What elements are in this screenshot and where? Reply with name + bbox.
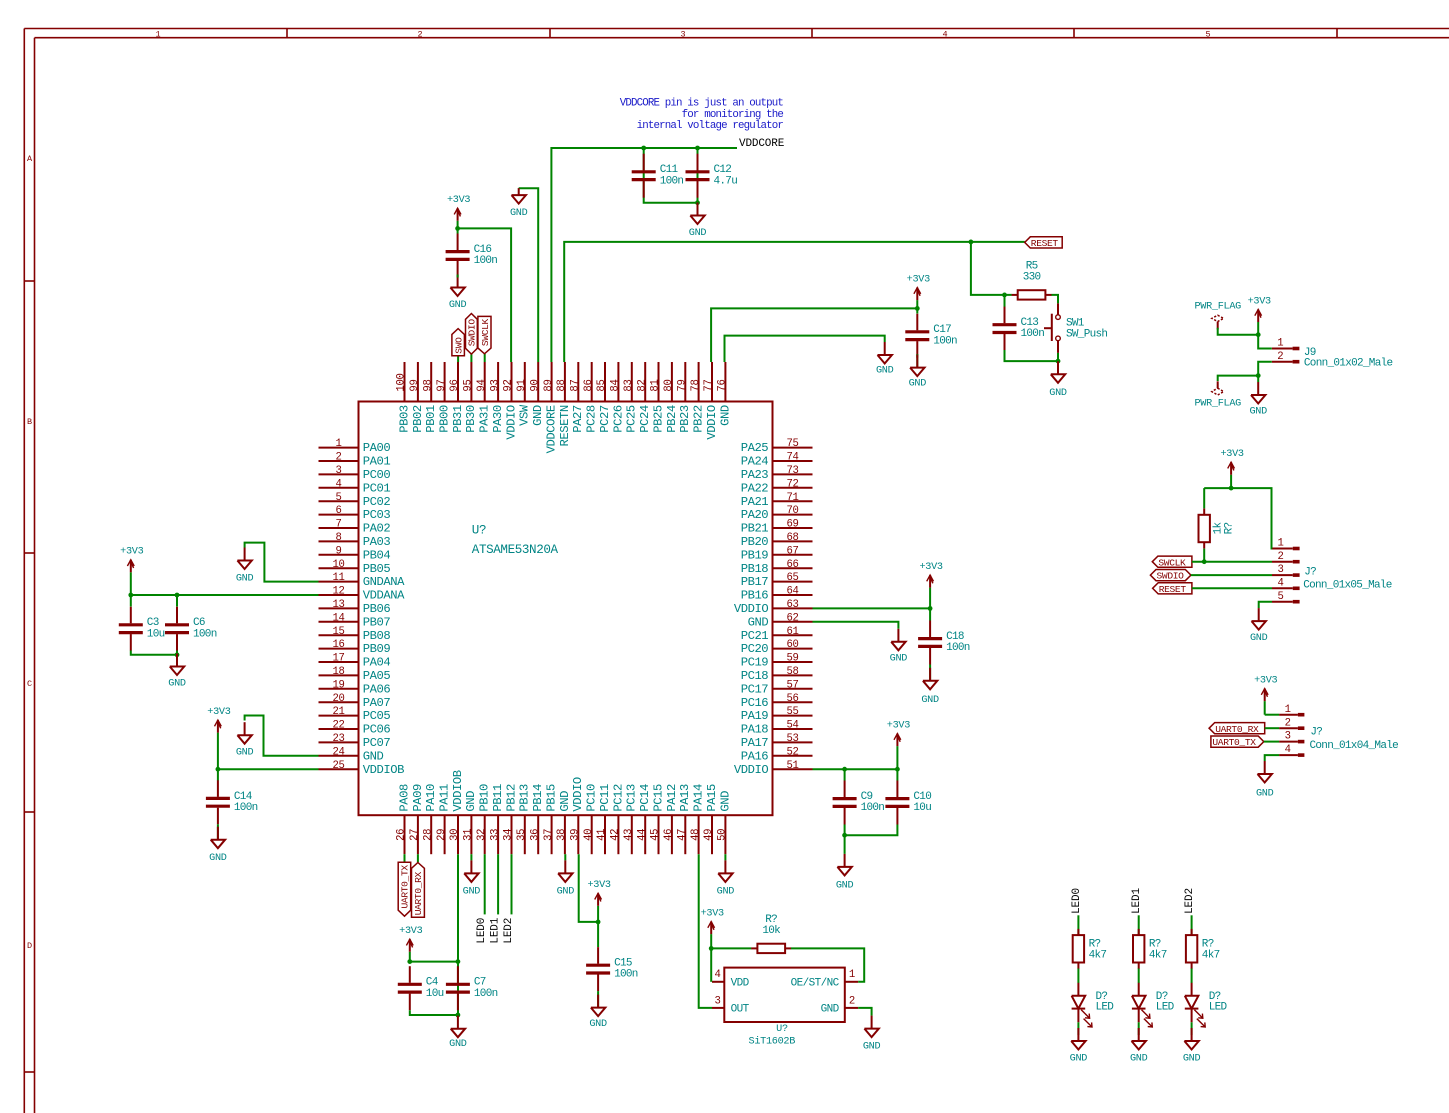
wire pin 39 +3V3 — [579, 854, 598, 922]
svg-text:14: 14 — [332, 612, 344, 624]
svg-text:UART0_RX: UART0_RX — [1215, 724, 1259, 735]
wire — [470, 354, 472, 362]
svg-text:67: 67 — [786, 545, 798, 557]
svg-text:PA11: PA11 — [438, 784, 452, 812]
svg-text:VDDCORE: VDDCORE — [739, 138, 785, 150]
wire to pwr_flag — [1218, 376, 1259, 381]
svg-text:PB25: PB25 — [651, 405, 665, 433]
svg-text:39: 39 — [570, 829, 582, 841]
svg-text:VDDIO: VDDIO — [571, 777, 585, 811]
svg-text:PC26: PC26 — [611, 405, 625, 433]
svg-text:47: 47 — [677, 829, 689, 841]
junction — [928, 606, 933, 611]
IC U1 left pins 1-25 — [319, 438, 406, 777]
svg-text:GND: GND — [1256, 789, 1274, 800]
ground — [463, 860, 481, 897]
svg-text:28: 28 — [422, 829, 434, 841]
svg-text:GND: GND — [168, 679, 186, 690]
svg-text:GND: GND — [836, 880, 854, 891]
svg-text:30: 30 — [449, 829, 461, 841]
wire — [844, 835, 846, 854]
node LED0 label — [1071, 888, 1083, 914]
junction — [842, 833, 847, 838]
svg-text:PC27: PC27 — [598, 405, 612, 433]
svg-text:C: C — [27, 679, 32, 689]
ground — [557, 860, 575, 897]
svg-text:PA21: PA21 — [741, 495, 769, 509]
svg-text:GND: GND — [558, 791, 572, 812]
svg-text:GND: GND — [748, 615, 769, 629]
wire RESET — [1192, 587, 1272, 589]
power +3V3 — [907, 274, 930, 308]
svg-text:PB31: PB31 — [451, 405, 465, 433]
svg-text:+3V3: +3V3 — [1248, 296, 1271, 307]
global label RESET — [1025, 237, 1063, 249]
svg-text:100n: 100n — [933, 335, 957, 347]
capacitor C3 — [119, 607, 165, 651]
wire — [1191, 1022, 1193, 1035]
wire UART0_RX — [1265, 727, 1279, 729]
wire — [410, 961, 458, 963]
svg-text:PA19: PA19 — [741, 709, 769, 723]
wire — [597, 991, 599, 1008]
svg-text:44: 44 — [636, 829, 648, 841]
wire — [404, 854, 406, 862]
svg-text:37: 37 — [543, 829, 555, 841]
svg-text:RESET: RESET — [1159, 584, 1187, 595]
svg-text:24: 24 — [332, 746, 344, 758]
svg-text:PB23: PB23 — [678, 405, 692, 433]
svg-text:PA22: PA22 — [741, 481, 769, 495]
svg-text:SWO: SWO — [453, 337, 464, 354]
junction — [455, 226, 460, 231]
wire — [1077, 1022, 1079, 1035]
svg-text:3: 3 — [714, 996, 720, 1008]
svg-text:VDDIO: VDDIO — [734, 602, 768, 616]
svg-text:PA01: PA01 — [363, 455, 391, 469]
node LED2 label — [503, 918, 515, 944]
svg-text:PC28: PC28 — [585, 405, 599, 433]
svg-text:+3V3: +3V3 — [587, 880, 610, 891]
wire — [896, 769, 898, 780]
capacitor C12 — [686, 154, 738, 198]
svg-text:17: 17 — [332, 653, 344, 665]
svg-text:56: 56 — [786, 693, 798, 705]
junction — [1229, 486, 1234, 491]
svg-text:3: 3 — [1277, 564, 1283, 576]
svg-text:A: A — [27, 154, 33, 164]
svg-text:87: 87 — [570, 379, 582, 391]
svg-text:PC21: PC21 — [741, 629, 769, 643]
svg-text:97: 97 — [436, 379, 448, 391]
svg-text:45: 45 — [650, 829, 662, 841]
wire — [597, 922, 599, 947]
svg-text:2: 2 — [335, 452, 341, 464]
IC U2 SiT1602B body — [724, 968, 845, 1048]
wire — [470, 854, 472, 860]
resistor R? — [1133, 929, 1167, 969]
junction — [456, 1013, 461, 1018]
svg-text:20: 20 — [332, 693, 344, 705]
svg-text:100n: 100n — [474, 255, 498, 267]
svg-text:GND: GND — [510, 208, 528, 219]
svg-text:PA06: PA06 — [363, 682, 391, 696]
wire — [484, 354, 486, 362]
svg-text:5: 5 — [1277, 591, 1283, 603]
wire — [417, 854, 419, 862]
wire pin 90 to gnd — [519, 188, 539, 362]
svg-text:63: 63 — [786, 599, 798, 611]
svg-text:4: 4 — [1285, 744, 1291, 756]
junction — [216, 767, 221, 772]
wire — [1138, 1022, 1140, 1035]
svg-text:PB16: PB16 — [741, 589, 769, 603]
svg-text:49: 49 — [703, 829, 715, 841]
capacitor C6 — [165, 607, 217, 651]
IC U1 top pins 76-100 — [396, 362, 733, 453]
global label SWCLK — [1152, 556, 1192, 568]
global label SWDIO — [1150, 570, 1191, 582]
connector J3 Conn_01x04_Male — [1279, 704, 1398, 756]
svg-text:PA20: PA20 — [741, 508, 769, 522]
svg-text:16: 16 — [332, 639, 344, 651]
wire pin 30 to C7 — [457, 854, 459, 1015]
svg-text:+3V3: +3V3 — [887, 720, 910, 731]
svg-text:PA16: PA16 — [741, 749, 769, 763]
note text about VDDCORE — [620, 97, 784, 132]
svg-text:1: 1 — [849, 969, 855, 981]
svg-text:PB24: PB24 — [665, 405, 679, 433]
svg-text:U?: U? — [776, 1024, 788, 1035]
svg-text:51: 51 — [786, 760, 798, 772]
svg-text:48: 48 — [690, 829, 702, 841]
svg-text:GND: GND — [1070, 1054, 1088, 1065]
wire C11 C12 to gnd — [644, 148, 698, 203]
svg-text:GND: GND — [363, 749, 384, 763]
svg-text:PC14: PC14 — [638, 784, 652, 812]
svg-text:330: 330 — [1023, 272, 1041, 284]
svg-text:RESETN: RESETN — [558, 405, 572, 446]
ground — [890, 629, 908, 665]
junction — [1202, 559, 1207, 564]
capacitor C17 — [905, 314, 957, 358]
svg-text:19: 19 — [332, 679, 344, 691]
svg-text:+3V3: +3V3 — [399, 926, 422, 937]
junction — [695, 146, 700, 151]
svg-text:85: 85 — [596, 379, 608, 391]
svg-text:73: 73 — [786, 465, 798, 477]
svg-text:100n: 100n — [234, 802, 258, 814]
svg-text:GND: GND — [209, 853, 227, 864]
svg-text:22: 22 — [332, 720, 344, 732]
power +3V3 — [399, 926, 422, 962]
ground — [863, 1016, 881, 1053]
svg-text:PB22: PB22 — [692, 405, 706, 433]
svg-text:VDDIO: VDDIO — [504, 405, 518, 439]
svg-text:10u: 10u — [913, 802, 931, 814]
junction — [842, 767, 847, 772]
svg-text:4k7: 4k7 — [1202, 950, 1220, 962]
svg-text:PC06: PC06 — [363, 723, 391, 737]
svg-text:PB30: PB30 — [464, 405, 478, 433]
wire pwr_flag +3V3 — [1218, 328, 1259, 335]
svg-text:GND: GND — [921, 695, 939, 706]
svg-text:PA05: PA05 — [363, 669, 391, 683]
ground — [717, 860, 735, 897]
svg-text:1: 1 — [1277, 538, 1283, 550]
junction — [1002, 293, 1007, 298]
wire LED1 — [1138, 915, 1140, 935]
svg-text:2: 2 — [1285, 717, 1291, 729]
svg-text:D: D — [27, 941, 32, 951]
svg-text:54: 54 — [786, 720, 798, 732]
svg-text:+3V3: +3V3 — [701, 908, 724, 919]
svg-text:90: 90 — [529, 379, 541, 391]
svg-text:61: 61 — [786, 626, 798, 638]
power +3V3 — [919, 562, 942, 609]
svg-text:PC17: PC17 — [741, 682, 769, 696]
capacitor C13 — [993, 307, 1045, 351]
svg-text:LED2: LED2 — [503, 918, 515, 944]
global label UART0_TX — [1211, 736, 1264, 748]
svg-text:PB03: PB03 — [397, 405, 411, 433]
svg-text:89: 89 — [543, 379, 555, 391]
LED D? — [1185, 983, 1228, 1027]
svg-text:74: 74 — [786, 452, 798, 464]
svg-text:VSW: VSW — [518, 404, 532, 426]
svg-text:J?: J? — [1310, 727, 1322, 739]
svg-text:for monitoring the: for monitoring the — [682, 109, 784, 121]
svg-text:GND: GND — [1049, 388, 1067, 399]
svg-text:GND: GND — [1250, 633, 1268, 644]
svg-text:1: 1 — [1277, 338, 1283, 350]
svg-text:PA13: PA13 — [678, 784, 692, 812]
capacitor C14 — [206, 780, 258, 824]
svg-text:PB00: PB00 — [438, 405, 452, 433]
capacitor C7 — [446, 966, 498, 1010]
ground — [449, 1016, 467, 1050]
wire pin 25 +3V3 — [218, 768, 319, 770]
svg-text:PC13: PC13 — [625, 784, 639, 812]
svg-text:PB02: PB02 — [411, 405, 425, 433]
svg-text:35: 35 — [516, 829, 528, 841]
power +3V3 — [587, 880, 610, 922]
svg-text:PB04: PB04 — [363, 548, 391, 562]
wire — [1077, 969, 1079, 984]
svg-text:GND: GND — [863, 1041, 881, 1052]
svg-text:+3V3: +3V3 — [919, 562, 942, 573]
svg-text:VDDIOB: VDDIOB — [363, 763, 404, 777]
wire pin 11 gnd — [245, 543, 319, 582]
svg-text:2: 2 — [849, 996, 855, 1008]
junction — [695, 200, 700, 205]
svg-text:GND: GND — [718, 405, 732, 426]
svg-text:+3V3: +3V3 — [207, 707, 230, 718]
junction — [175, 593, 180, 598]
wire C13 SW1 gnd — [1005, 350, 1059, 361]
wire — [1203, 549, 1205, 562]
svg-text:PB08: PB08 — [363, 629, 391, 643]
wire R5 to SW1 — [1052, 295, 1059, 304]
svg-text:53: 53 — [786, 733, 798, 745]
svg-text:PC19: PC19 — [741, 656, 769, 670]
resistor R? — [1199, 509, 1236, 549]
svg-text:36: 36 — [529, 829, 541, 841]
svg-text:65: 65 — [786, 572, 798, 584]
svg-text:84: 84 — [610, 379, 622, 391]
wire +3V3 to J.1 — [1204, 488, 1272, 548]
wire — [1138, 969, 1140, 984]
svg-text:55: 55 — [786, 706, 798, 718]
svg-text:10k: 10k — [762, 925, 781, 937]
svg-text:UART0_RX: UART0_RX — [413, 871, 424, 915]
wire to pullup — [1203, 488, 1205, 508]
switch SW1 SW_Push — [1044, 303, 1107, 353]
svg-text:27: 27 — [409, 829, 421, 841]
svg-text:92: 92 — [503, 379, 515, 391]
svg-text:4k7: 4k7 — [1149, 950, 1167, 962]
wire +3V3 to VDD — [710, 948, 712, 981]
wire VDDANA net — [131, 594, 319, 596]
svg-text:PC12: PC12 — [611, 784, 625, 812]
svg-text:21: 21 — [332, 706, 344, 718]
wire LED2 net — [511, 854, 513, 914]
wire — [564, 854, 566, 860]
svg-text:1: 1 — [335, 438, 341, 450]
svg-text:70: 70 — [786, 505, 798, 517]
wire pin 62 gnd — [813, 622, 899, 629]
svg-text:91: 91 — [516, 379, 528, 391]
wire UART0_TX — [1264, 741, 1279, 743]
svg-text:94: 94 — [476, 379, 488, 391]
svg-text:VDDIOB: VDDIOB — [451, 770, 465, 811]
svg-text:4: 4 — [335, 478, 341, 490]
svg-text:95: 95 — [463, 379, 475, 391]
svg-text:40: 40 — [583, 829, 595, 841]
svg-text:GND: GND — [463, 886, 481, 897]
svg-text:PC20: PC20 — [741, 642, 769, 656]
svg-text:LED: LED — [1209, 1002, 1228, 1014]
svg-text:PB09: PB09 — [363, 642, 391, 656]
IC U2 pins — [712, 969, 858, 1015]
wire LED1 net — [497, 854, 499, 914]
connector J9 Conn_01x02_Male — [1272, 338, 1393, 370]
svg-text:SWCLK: SWCLK — [480, 318, 491, 346]
svg-text:R?: R? — [1223, 523, 1235, 535]
resistor R? — [1073, 929, 1107, 969]
svg-text:+3V3: +3V3 — [447, 195, 470, 206]
svg-text:PC18: PC18 — [741, 669, 769, 683]
wire J.4 gnd — [1265, 755, 1279, 761]
svg-text:+3V3: +3V3 — [907, 274, 930, 285]
wire — [916, 308, 918, 313]
svg-text:4: 4 — [942, 29, 947, 39]
svg-text:GND: GND — [718, 791, 732, 812]
svg-text:LED0: LED0 — [476, 918, 488, 944]
svg-text:PB07: PB07 — [363, 615, 391, 629]
svg-text:GND: GND — [717, 886, 735, 897]
svg-text:4: 4 — [1277, 577, 1283, 589]
ground — [1256, 761, 1274, 800]
ground — [921, 668, 939, 706]
svg-text:PB12: PB12 — [504, 784, 518, 812]
wire LED2 — [1191, 915, 1193, 935]
ground — [1249, 382, 1267, 417]
svg-text:VDDCORE: VDDCORE — [545, 405, 559, 453]
svg-text:88: 88 — [556, 379, 568, 391]
svg-text:98: 98 — [422, 379, 434, 391]
svg-text:96: 96 — [449, 379, 461, 391]
svg-text:PB19: PB19 — [741, 548, 769, 562]
svg-text:GND: GND — [689, 228, 707, 239]
svg-text:PC11: PC11 — [598, 784, 612, 812]
ground — [1130, 1028, 1148, 1065]
svg-text:11: 11 — [332, 572, 344, 584]
svg-text:PB15: PB15 — [545, 784, 559, 812]
svg-text:LED: LED — [1156, 1002, 1175, 1014]
svg-text:12: 12 — [332, 586, 344, 598]
wire J.5 gnd — [1259, 602, 1272, 608]
svg-text:71: 71 — [786, 492, 798, 504]
svg-text:81: 81 — [650, 379, 662, 391]
power +3V3 — [447, 195, 470, 228]
svg-text:10: 10 — [332, 559, 344, 571]
svg-text:59: 59 — [786, 653, 798, 665]
wire GND pin — [858, 1008, 871, 1016]
svg-text:9: 9 — [335, 545, 341, 557]
svg-text:PC05: PC05 — [363, 709, 391, 723]
svg-text:PWR_FLAG: PWR_FLAG — [1194, 301, 1241, 312]
power +3V3 — [1248, 296, 1271, 334]
svg-text:Conn_01x02_Male: Conn_01x02_Male — [1304, 358, 1393, 370]
svg-text:26: 26 — [396, 829, 408, 841]
svg-text:GND: GND — [449, 1039, 467, 1050]
node LED1 label — [490, 917, 502, 943]
wire — [1257, 376, 1259, 382]
power +3V3 — [1220, 449, 1243, 488]
global label SWCLK — [478, 316, 491, 353]
svg-text:GND: GND — [464, 791, 478, 812]
capacitor C4 — [398, 966, 444, 1010]
LED D? — [1072, 983, 1115, 1027]
svg-text:U?: U? — [472, 523, 486, 537]
wire +3V3 to J.1 — [1265, 714, 1279, 716]
svg-text:PC01: PC01 — [363, 481, 391, 495]
wire — [929, 608, 931, 620]
junction — [128, 593, 133, 598]
junction — [709, 946, 714, 951]
svg-text:8: 8 — [335, 532, 341, 544]
svg-text:100n: 100n — [660, 175, 684, 187]
svg-text:GND: GND — [1249, 406, 1267, 417]
wire — [130, 595, 132, 607]
svg-text:PA00: PA00 — [363, 441, 391, 455]
node LED0 label — [476, 918, 488, 944]
svg-text:VDD: VDD — [731, 977, 750, 989]
svg-text:4.7u: 4.7u — [714, 175, 738, 187]
svg-text:UART0_TX: UART0_TX — [400, 865, 411, 909]
svg-text:3: 3 — [1285, 731, 1291, 743]
svg-text:SiT1602B: SiT1602B — [749, 1036, 796, 1048]
svg-text:GND: GND — [890, 654, 908, 665]
svg-text:75: 75 — [786, 438, 798, 450]
wire pin 77 +3V3 — [711, 308, 917, 362]
svg-text:PC00: PC00 — [363, 468, 391, 482]
svg-text:18: 18 — [332, 666, 344, 678]
node LED2 label — [1184, 888, 1196, 914]
svg-text:PA12: PA12 — [665, 784, 679, 812]
svg-text:PA07: PA07 — [363, 696, 391, 710]
